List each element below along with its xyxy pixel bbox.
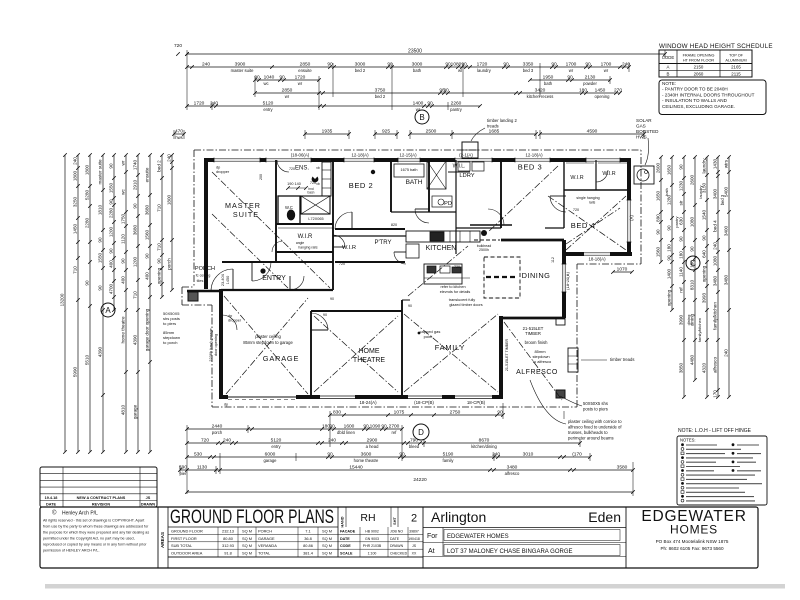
svg-text:18-24(A): 18-24(A) (359, 400, 377, 405)
svg-text:90: 90 (363, 423, 369, 429)
svg-text:- 2340H INTERNAL DOORS THROUGH: - 2340H INTERNAL DOORS THROUGHOUT (662, 92, 755, 97)
svg-text:point: point (424, 334, 434, 339)
svg-text:porch: porch (212, 430, 223, 435)
svg-text:FRAME OPENING: FRAME OPENING (683, 54, 715, 58)
svg-text:opening: opening (667, 289, 672, 306)
svg-text:1700: 1700 (601, 61, 612, 67)
svg-text:90: 90 (667, 225, 672, 231)
svg-text:720: 720 (454, 265, 460, 269)
svg-text:1950: 1950 (543, 74, 554, 80)
svg-text:1685: 1685 (489, 128, 500, 134)
svg-text:4700: 4700 (109, 283, 114, 294)
svg-text:PHR 2103B: PHR 2103B (363, 544, 382, 548)
svg-text:2115: 2115 (731, 72, 741, 77)
svg-text:GAS: GAS (636, 124, 646, 129)
svg-text:translucent fully: translucent fully (449, 298, 475, 302)
svg-text:(2-1(A): (2-1(A) (459, 153, 473, 158)
svg-text:36.8: 36.8 (304, 536, 312, 541)
svg-text:2130: 2130 (585, 74, 596, 80)
svg-text:Ph: 8602 6105 Fax: 9673 556: Ph: 8602 6105 Fax: 9673 5560 (660, 546, 724, 551)
svg-text:5990: 5990 (73, 366, 78, 377)
svg-text:50X50X5 shs: 50X50X5 shs (583, 401, 608, 406)
svg-text:wr: wr (569, 68, 574, 73)
svg-text:ALUMINIUM: ALUMINIUM (725, 59, 746, 63)
svg-text:SOLAR: SOLAR (636, 118, 652, 123)
svg-text:GN 9003: GN 9003 (365, 537, 379, 541)
svg-text:1550: 1550 (98, 252, 103, 263)
svg-text:1450: 1450 (73, 223, 78, 234)
svg-text:wl: wl (458, 68, 462, 73)
svg-text:23500: 23500 (408, 48, 422, 54)
svg-text:TOP OF: TOP OF (729, 54, 744, 58)
svg-text:wc: wc (121, 188, 126, 194)
svg-text:232.13: 232.13 (222, 528, 234, 533)
svg-text:NEW A CONTRACT PLANS: NEW A CONTRACT PLANS (77, 496, 126, 500)
svg-text:1800: 1800 (85, 164, 90, 175)
svg-text:SQ M: SQ M (242, 536, 252, 541)
svg-text:8670: 8670 (479, 437, 490, 443)
svg-text:90: 90 (656, 229, 661, 235)
svg-text:elevnds for details: elevnds for details (440, 290, 471, 294)
svg-text:3350: 3350 (523, 61, 534, 67)
svg-text:At: At (428, 548, 435, 555)
svg-text:1750: 1750 (121, 213, 126, 224)
svg-text:720: 720 (573, 208, 579, 212)
svg-text:12-18(A): 12-18(A) (351, 153, 369, 158)
svg-text:190 140: 190 140 (287, 182, 301, 186)
svg-text:from use by the party to whom: from use by the party to whom these draw… (43, 525, 149, 529)
svg-text:GARAGE: GARAGE (258, 536, 275, 541)
svg-text:90: 90 (109, 248, 114, 254)
svg-text:ENS.: ENS. (295, 166, 309, 172)
svg-text:W.I.R: W.I.R (298, 234, 313, 240)
svg-text:HT FROM FLOOR: HT FROM FLOOR (683, 59, 715, 63)
svg-text:1080: 1080 (713, 255, 718, 266)
svg-text:NOTE: L.O.H - LIFT OFF HINGE: NOTE: L.O.H - LIFT OFF HINGE (678, 428, 752, 434)
svg-text:2150: 2150 (694, 65, 704, 70)
svg-text:1560: 1560 (145, 229, 150, 240)
svg-text:posts to piers: posts to piers (583, 407, 608, 412)
svg-text:3400: 3400 (724, 225, 729, 236)
svg-text:W.I.R: W.I.R (570, 175, 583, 181)
svg-text:reproduced or copied by any me: reproduced or copied by any means or in … (43, 543, 147, 547)
svg-text:5120: 5120 (263, 100, 274, 106)
svg-text:381.4: 381.4 (303, 551, 314, 556)
svg-text:dbld linen: dbld linen (337, 430, 356, 435)
svg-text:4390: 4390 (98, 346, 103, 357)
svg-text:90: 90 (323, 313, 327, 317)
svg-text:400: 400 (145, 272, 150, 280)
svg-text:2850: 2850 (282, 87, 293, 93)
svg-text:pantry: pantry (674, 216, 679, 227)
svg-text:OUTDOOR AREA: OUTDOOR AREA (171, 551, 203, 556)
svg-text:90: 90 (690, 246, 695, 252)
svg-text:ref: ref (392, 430, 398, 435)
svg-text:3580: 3580 (617, 464, 628, 470)
svg-text:3850: 3850 (679, 362, 684, 373)
svg-text:400: 400 (109, 260, 114, 268)
svg-text:A: A (667, 65, 670, 70)
svg-text:SCALE: SCALE (340, 552, 353, 556)
svg-text:240: 240 (223, 437, 231, 443)
svg-text:PD: PD (444, 201, 452, 207)
svg-text:710: 710 (157, 204, 162, 212)
svg-text:dropper: dropper (228, 319, 242, 323)
svg-text:TOTAL: TOTAL (258, 551, 271, 556)
svg-text:19.4.18: 19.4.18 (45, 496, 58, 500)
svg-text:3900: 3900 (235, 61, 246, 67)
svg-text:JOB NO: JOB NO (390, 529, 403, 533)
svg-text:90: 90 (133, 203, 138, 209)
svg-text:1230: 1230 (679, 180, 684, 191)
svg-text:dp: dp (228, 314, 232, 318)
svg-text:NOTE:: NOTE: (662, 81, 676, 86)
svg-text:(18-06(A): (18-06(A) (291, 153, 310, 158)
svg-text:FAMILY: FAMILY (435, 343, 466, 352)
svg-text:3480: 3480 (507, 464, 518, 470)
svg-text:(A): (A) (629, 215, 634, 221)
svg-text:master suite: master suite (98, 159, 103, 184)
svg-text:SQ M: SQ M (322, 528, 332, 533)
svg-text:CODE: CODE (662, 55, 675, 60)
svg-text:1080: 1080 (451, 61, 462, 67)
svg-text:640: 640 (702, 250, 707, 258)
svg-text:MASTER: MASTER (225, 201, 261, 210)
svg-text:opening: opening (595, 94, 611, 99)
svg-text:5280: 5280 (85, 189, 90, 200)
svg-text:1200: 1200 (133, 256, 138, 267)
svg-text:opening: opening (157, 267, 162, 284)
svg-text:90: 90 (98, 237, 103, 243)
svg-text:2850: 2850 (300, 61, 311, 67)
svg-text:GARAGE: GARAGE (263, 354, 299, 363)
svg-text:1550: 1550 (109, 182, 114, 193)
svg-text:190418: 190418 (408, 537, 420, 541)
svg-text:DATE: DATE (390, 537, 400, 541)
svg-text:112: 112 (551, 257, 555, 263)
svg-text:1090: 1090 (370, 423, 381, 429)
svg-text:laundry: laundry (702, 158, 707, 174)
svg-text:80.80: 80.80 (223, 536, 234, 541)
svg-text:bed 2: bed 2 (157, 160, 162, 172)
svg-text:DINING: DINING (522, 271, 551, 280)
svg-text:3010: 3010 (523, 451, 534, 457)
svg-text:EDGEWATER HOMES: EDGEWATER HOMES (447, 534, 509, 540)
svg-text:1700: 1700 (566, 61, 577, 67)
svg-text:15440: 15440 (349, 464, 363, 470)
svg-text:wr: wr (416, 107, 421, 112)
svg-text:laundry: laundry (477, 68, 492, 73)
svg-text:3480: 3480 (724, 274, 729, 285)
svg-text:FACADE: FACADE (340, 529, 356, 533)
svg-text:VERANDA: VERANDA (258, 543, 277, 548)
svg-text:WINDOW HEAD HEIGHT SCHEDULE: WINDOW HEAD HEIGHT SCHEDULE (659, 43, 773, 50)
svg-text:90: 90 (98, 285, 103, 291)
svg-text:3990: 3990 (679, 314, 684, 325)
svg-text:90: 90 (330, 297, 334, 301)
svg-text:170: 170 (713, 390, 718, 398)
svg-text:W.I.R: W.I.R (602, 171, 615, 177)
svg-text:90: 90 (109, 163, 114, 169)
svg-text:3000: 3000 (355, 61, 366, 67)
svg-text:90: 90 (679, 236, 684, 242)
svg-text:pier: pier (180, 471, 188, 476)
svg-text:630: 630 (679, 217, 684, 225)
svg-text:SQ M: SQ M (322, 543, 332, 548)
svg-text:SQ M: SQ M (322, 536, 332, 541)
svg-text:PO Box 474 Mootelalink NSW: PO Box 474 Mootelalink NSW 1875 (656, 539, 729, 544)
svg-text:2900: 2900 (367, 437, 378, 443)
svg-text:BED 3: BED 3 (518, 163, 542, 172)
svg-text:4390: 4390 (133, 334, 138, 345)
svg-text:820: 820 (391, 223, 397, 227)
svg-text:rails: rails (589, 201, 596, 205)
svg-text:90: 90 (443, 87, 449, 93)
svg-text:BED 2: BED 2 (349, 181, 373, 190)
svg-text:LDRY: LDRY (459, 173, 474, 179)
svg-text:13200: 13200 (60, 293, 65, 306)
svg-text:a head: a head (366, 444, 379, 449)
svg-text:3680: 3680 (133, 224, 138, 235)
svg-text:timber landing 2: timber landing 2 (487, 118, 517, 123)
svg-text:1720: 1720 (295, 74, 306, 80)
svg-text:dp: dp (224, 403, 228, 407)
svg-text:BOOSTED: BOOSTED (636, 129, 659, 134)
svg-text:hanging rails: hanging rails (298, 246, 318, 250)
svg-text:kitchen/dining: kitchen/dining (471, 444, 497, 449)
svg-text:710: 710 (157, 243, 162, 251)
svg-text:240: 240 (492, 451, 500, 457)
svg-text:90: 90 (85, 280, 90, 286)
svg-text:DATE: DATE (46, 503, 57, 507)
svg-text:3680: 3680 (145, 204, 150, 215)
svg-text:2060: 2060 (694, 72, 704, 77)
svg-text:90: 90 (121, 258, 126, 264)
svg-text:plaster ceiling: plaster ceiling (255, 334, 281, 339)
svg-text:wc: wc (263, 81, 268, 86)
svg-text:1040: 1040 (264, 74, 275, 80)
svg-text:entry: entry (271, 444, 281, 449)
svg-text:dining: dining (686, 315, 691, 326)
svg-text:SUITE: SUITE (233, 210, 259, 219)
svg-text:tiles: tiles (197, 279, 204, 283)
svg-text:wr: wr (121, 160, 126, 165)
svg-text:All rights reserved - this set: All rights reserved - this set of drawin… (43, 519, 144, 523)
svg-text:powder: powder (583, 81, 597, 86)
svg-text:garage: garage (263, 458, 277, 463)
svg-text:bed 4: bed 4 (713, 220, 718, 232)
svg-text:vb: vb (316, 166, 320, 170)
svg-text:1140: 1140 (679, 267, 684, 277)
svg-text:2600: 2600 (690, 174, 695, 185)
svg-text:1450: 1450 (595, 87, 606, 93)
svg-text:SQ M: SQ M (242, 528, 252, 533)
svg-text:bed 3: bed 3 (720, 194, 725, 205)
svg-text:312.93: 312.93 (222, 543, 234, 548)
svg-text:180: 180 (667, 244, 672, 252)
svg-text:B: B (419, 113, 424, 122)
svg-text:90: 90 (381, 423, 387, 429)
svg-text:90: 90 (551, 61, 557, 67)
svg-text:90: 90 (157, 258, 162, 264)
svg-text:4480: 4480 (690, 354, 695, 365)
svg-text:240: 240 (713, 242, 718, 250)
svg-text:1:100: 1:100 (368, 552, 377, 556)
svg-text:3400: 3400 (713, 188, 718, 199)
svg-text:4320: 4320 (702, 362, 707, 373)
svg-text:Eden: Eden (588, 509, 621, 525)
svg-text:1075: 1075 (394, 409, 405, 415)
svg-text:90: 90 (145, 253, 150, 259)
svg-text:to piers: to piers (163, 321, 176, 326)
svg-text:4810: 4810 (121, 404, 126, 415)
svg-text:L72X065: L72X065 (308, 217, 323, 221)
svg-text:5120: 5120 (271, 437, 282, 443)
svg-text:master suite: master suite (231, 68, 254, 73)
svg-text:2440: 2440 (212, 423, 223, 429)
svg-text:ensuite: ensuite (145, 167, 150, 182)
svg-text:90: 90 (279, 74, 285, 80)
svg-text:sir: sir (679, 200, 684, 205)
svg-text:2500: 2500 (426, 128, 437, 134)
svg-text:opening: opening (702, 265, 707, 282)
svg-text:1560: 1560 (656, 246, 661, 257)
svg-text:6000: 6000 (265, 451, 276, 457)
svg-text:1130: 1130 (197, 464, 208, 470)
svg-text:90: 90 (567, 74, 573, 80)
svg-text:HAND: HAND (341, 516, 345, 527)
svg-text:XX: XX (412, 552, 417, 556)
svg-text:1080: 1080 (690, 216, 695, 227)
svg-text:bed 2: bed 2 (355, 68, 366, 73)
svg-text:830: 830 (333, 409, 341, 415)
svg-text:2165: 2165 (731, 65, 741, 70)
svg-text:1810: 1810 (98, 204, 103, 215)
svg-text:PORCH: PORCH (195, 266, 215, 272)
svg-text:24220: 24220 (413, 477, 427, 483)
svg-text:DATE: DATE (340, 537, 350, 541)
svg-text:wr: wr (285, 94, 290, 99)
svg-text:KITCHEN: KITCHEN (426, 245, 457, 252)
svg-text:1740: 1740 (133, 159, 138, 170)
svg-text:1800: 1800 (167, 194, 172, 205)
svg-text:to porch: to porch (163, 340, 177, 345)
svg-text:bleed: bleed (409, 444, 420, 449)
svg-text:Henley Arch P/L: Henley Arch P/L (62, 511, 98, 517)
svg-text:dropper: dropper (216, 170, 230, 174)
svg-text:B: B (667, 72, 670, 77)
svg-text:39897: 39897 (409, 529, 419, 533)
svg-text:925: 925 (382, 128, 390, 134)
svg-text:7.1: 7.1 (305, 528, 310, 533)
svg-text:5190: 5190 (443, 451, 454, 457)
svg-text:1650: 1650 (667, 164, 672, 175)
svg-text:HOMES: HOMES (670, 523, 718, 537)
svg-text:- INSULATION TO WALLS AND: - INSULATION TO WALLS AND (662, 98, 728, 103)
svg-text:family: family (443, 458, 455, 463)
svg-text:240: 240 (73, 157, 78, 165)
svg-text:to alfresco: to alfresco (533, 359, 552, 364)
svg-text:240: 240 (328, 437, 336, 443)
svg-text:270: 270 (614, 87, 622, 93)
svg-text:3480: 3480 (713, 275, 718, 286)
svg-text:GROUND FLOOR PLANS: GROUND FLOOR PLANS (170, 507, 334, 528)
svg-text:SQ M: SQ M (242, 543, 252, 548)
svg-text:240: 240 (210, 100, 218, 106)
svg-text:treads: treads (487, 124, 499, 129)
svg-text:90: 90 (667, 255, 672, 261)
svg-text:1935: 1935 (322, 128, 333, 134)
svg-text:GROUND FLOOR: GROUND FLOOR (171, 528, 203, 533)
svg-text:1720: 1720 (194, 100, 205, 106)
svg-text:CEILINGS, EXCLUDING GARAGE.: CEILINGS, EXCLUDING GARAGE. (662, 104, 735, 109)
svg-text:HB 9002: HB 9002 (365, 529, 379, 533)
svg-text:3750: 3750 (375, 87, 386, 93)
svg-text:180: 180 (579, 87, 587, 93)
svg-text:ref: ref (679, 287, 684, 293)
svg-text:JS: JS (146, 496, 151, 500)
svg-text:1450: 1450 (226, 276, 230, 284)
svg-text:W.I.L.: W.I.L. (453, 164, 466, 170)
svg-text:1200: 1200 (109, 226, 114, 237)
svg-text:HWS: HWS (636, 135, 647, 140)
svg-text:1400: 1400 (413, 100, 424, 106)
svg-text:permitted under the Copyright: permitted under the Copyright Act, no pa… (43, 537, 135, 541)
svg-text:91.8: 91.8 (224, 551, 232, 556)
svg-text:2280: 2280 (109, 207, 114, 218)
svg-text:home theatre: home theatre (121, 316, 126, 344)
svg-text:JS: JS (412, 544, 417, 548)
svg-text:720: 720 (201, 437, 209, 443)
svg-text:perimeter around beams: perimeter around beams (568, 436, 614, 441)
svg-text:21-515LET TIMBER: 21-515LET TIMBER (505, 338, 509, 371)
svg-text:the purpose for which they wer: the purpose for which they were prepared… (43, 531, 149, 535)
svg-text:bath: bath (544, 81, 553, 86)
svg-text:- PANTRY DOOR TO BE 2040H: - PANTRY DOOR TO BE 2040H (662, 87, 728, 92)
svg-text:alfresco: alfresco (505, 471, 520, 476)
svg-text:90: 90 (427, 100, 433, 106)
svg-text:dp: dp (216, 166, 220, 170)
svg-text:(170: (170 (572, 451, 582, 457)
svg-text:SHT: SHT (393, 517, 397, 525)
svg-text:wirs: wirs (724, 159, 729, 168)
svg-text:bath: bath (413, 68, 422, 73)
svg-text:refer to kitchen: refer to kitchen (440, 285, 465, 289)
svg-text:1070: 1070 (617, 266, 628, 272)
svg-text:5510: 5510 (85, 354, 90, 365)
svg-text:90: 90 (702, 235, 707, 241)
svg-text:timber treads: timber treads (610, 357, 634, 362)
svg-text:Arlington: Arlington (431, 509, 486, 525)
svg-text:2: 2 (411, 513, 417, 525)
svg-text:890: 890 (656, 214, 661, 222)
svg-text:CODE: CODE (340, 544, 351, 548)
svg-text:TIMBER: TIMBER (525, 331, 541, 336)
svg-text:2236h (raw) garage: 2236h (raw) garage (209, 328, 213, 361)
svg-text:90: 90 (585, 61, 591, 67)
svg-text:3993: 3993 (702, 292, 707, 303)
svg-text:family/kitchen: family/kitchen (713, 302, 718, 330)
svg-text:home theatre: home theatre (354, 458, 379, 463)
svg-text:3600: 3600 (361, 451, 372, 457)
svg-text:garage: garage (133, 404, 138, 419)
svg-text:BED 4: BED 4 (571, 221, 595, 230)
svg-text:200: 200 (259, 174, 263, 180)
svg-text:80.86: 80.86 (303, 543, 313, 548)
svg-text:8310: 8310 (690, 279, 695, 290)
svg-text:1650: 1650 (656, 190, 661, 201)
svg-text:2500h: 2500h (479, 248, 489, 252)
